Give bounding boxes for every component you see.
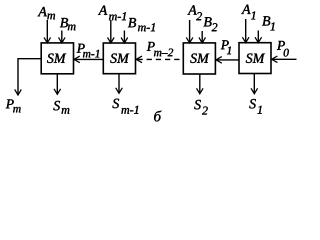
label SM (bit m-1) — [110, 54, 129, 63]
label P_m-1 — [77, 44, 100, 58]
label A_m-1 — [98, 6, 126, 21]
adder block SM (bit 2) — [183, 43, 215, 74]
adder block SM (bit 1) — [239, 43, 271, 74]
label SM (bit 1) — [246, 54, 265, 63]
input wire A_1 — [242, 19, 249, 43]
label B_1 — [262, 16, 274, 30]
label A_1 — [241, 5, 255, 20]
label S_1 — [249, 99, 261, 114]
label B_m-1 — [128, 18, 155, 31]
dashed carry wire P_m-2 into SM(m-1) — [136, 56, 183, 63]
input wire B_m — [59, 31, 66, 43]
label A_m — [38, 7, 56, 19]
label P_m-2 — [147, 42, 173, 56]
carry-in wire P_0 — [272, 56, 297, 63]
output wire S_m — [54, 74, 61, 95]
adder block SM (bit m) — [41, 43, 73, 74]
input wire B_m-1 — [121, 31, 128, 44]
label S_m — [53, 101, 69, 114]
output wire S_2 — [197, 74, 204, 94]
input wire A_m-1 — [108, 20, 115, 43]
label SM (bit 2) — [190, 54, 209, 63]
carry wire P_m-1 from SM(m-1) to SM(m) — [74, 56, 103, 63]
label P_1 — [221, 40, 231, 54]
label SM (bit m) — [47, 54, 66, 63]
carry wire P_1 from SM(1) to SM(2) — [216, 57, 239, 64]
label B_2 — [204, 17, 218, 31]
output wire S_1 — [251, 74, 258, 94]
label S_2 — [194, 100, 207, 115]
input wire A_m — [44, 20, 51, 43]
carry-out wire P_m — [15, 59, 42, 95]
input wire B_1 — [255, 31, 262, 43]
input wire A_2 — [186, 20, 193, 43]
label P_0 — [277, 41, 289, 57]
caption б — [154, 111, 161, 122]
label S_m-1 — [112, 99, 138, 114]
label B_m — [60, 18, 76, 30]
output wire S_m-1 — [116, 74, 123, 94]
label P_m — [6, 99, 21, 112]
adder block SM (bit m-1) — [103, 43, 135, 74]
label A_2 — [187, 5, 202, 20]
input wire B_2 — [199, 31, 206, 43]
